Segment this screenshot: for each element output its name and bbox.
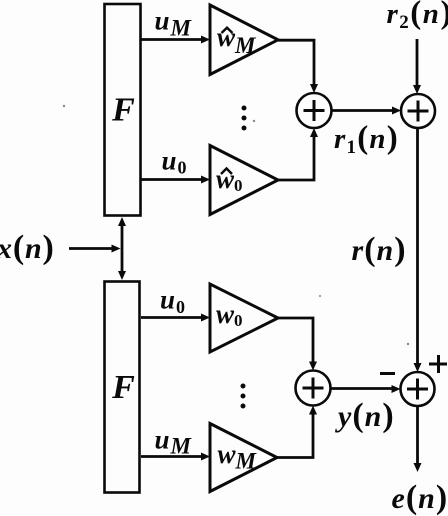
- wire W_0 output to S3: [278, 318, 313, 362]
- wire u_M top (F to W_M hat): [141, 38, 203, 41]
- wire W_0 hat output to S1: [278, 136, 314, 180]
- hat accent over w_0: [221, 169, 232, 175]
- dots between bottom triangles: [241, 384, 246, 389]
- arrowhead into W_M bottom: [201, 453, 210, 461]
- svg-text:r2(n): r2(n): [387, 0, 448, 33]
- plus sign at S4: [429, 363, 447, 366]
- wire bidirectional x(n) to both F blocks: [121, 224, 124, 273]
- arrowhead into S3 from top: [309, 362, 317, 371]
- wire S4 output e(n): [416, 406, 419, 464]
- wire S1 to S2 carrying r1(n): [332, 109, 394, 112]
- summer S2 (top-right adder): [401, 94, 435, 128]
- gain triangle W_M (bottom section): [210, 424, 277, 492]
- arrowhead into S1 from bottom: [310, 128, 318, 137]
- wire S3 to S4 carrying y(n): [331, 387, 393, 390]
- minus sign at S4: [380, 372, 395, 375]
- wire u_M bottom (F to W_M): [141, 455, 203, 458]
- wire W_M output to S3: [277, 414, 313, 458]
- svg-text:r1(n): r1(n): [334, 120, 399, 158]
- filter block F (bottom): [105, 282, 140, 493]
- hat accent over w_M: [222, 28, 233, 33]
- arrowhead down into bottom F: [118, 271, 126, 280]
- wire x(n) input arrow: [69, 247, 113, 250]
- arrowhead up into top F: [118, 217, 126, 226]
- arrowhead output e(n): [414, 463, 422, 472]
- svg-text:F: F: [111, 92, 135, 129]
- summer S1 (top-left adder): [297, 93, 332, 128]
- arrowhead into W_0 bottom: [201, 314, 210, 322]
- svg-text:u0: u0: [160, 285, 186, 318]
- wire S2 down to S4 carrying r(n): [416, 128, 419, 364]
- wire r2(n) into S2: [416, 39, 419, 86]
- summer S4 (bottom-right adder): [401, 372, 435, 406]
- svg-text:uM: uM: [155, 425, 193, 459]
- arrowhead into S2 from top: [413, 85, 421, 94]
- arrowhead x(n) into vertical wire: [112, 245, 121, 253]
- svg-text:u0: u0: [162, 146, 188, 178]
- svg-text:e(n): e(n): [392, 479, 448, 516]
- svg-text:x(n): x(n): [0, 229, 55, 266]
- arrowhead into S1 from top: [310, 84, 318, 93]
- arrowhead into S3 from bottom: [309, 406, 317, 415]
- svg-text:F: F: [111, 369, 135, 406]
- gain triangle W_M hat (top): [210, 5, 278, 75]
- arrowhead into S4 from left: [392, 385, 401, 393]
- arrowhead into S2 from left: [392, 107, 401, 115]
- arrowhead into W_0 hat: [201, 176, 210, 184]
- svg-text:uM: uM: [155, 6, 193, 41]
- wire u_0 bottom (F to W_0): [141, 316, 203, 319]
- filter block F (top): [105, 4, 141, 216]
- gain triangle W_0 hat: [210, 146, 278, 215]
- svg-text:w0: w0: [216, 164, 243, 195]
- wire u_0 top (F to W_0 hat): [141, 178, 203, 181]
- dots between top triangles: [242, 106, 247, 111]
- gain triangle W_0 (bottom section): [210, 284, 278, 352]
- svg-text:y(n): y(n): [335, 397, 395, 434]
- svg-text:r(n): r(n): [352, 231, 407, 268]
- wire W_M hat output to S1: [278, 40, 314, 85]
- arrowhead into W_M hat: [201, 36, 210, 44]
- summer S3 (bottom-left adder): [296, 371, 331, 406]
- svg-text:w0: w0: [216, 299, 243, 330]
- arrowhead into S4 from top: [414, 363, 422, 372]
- scan speckles: [63, 105, 65, 107]
